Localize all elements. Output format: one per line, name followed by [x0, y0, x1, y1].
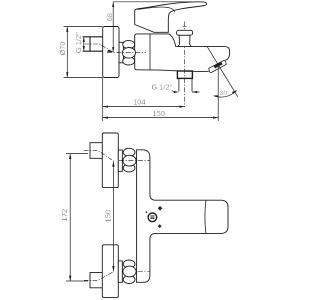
- plan view: top nut centerline: [119, 160, 150, 162]
- plan view: bottom nipple centerline: [84, 272, 114, 281]
- plan view: bottom nut centerline: [119, 271, 150, 273]
- faucet body block: [135, 34, 209, 72]
- dimension 172 extension lines: [66, 154, 88, 281]
- svg-text:150: 150: [104, 210, 113, 223]
- plan view: top inlet nipple: [90, 143, 102, 159]
- aerator dark insert: [214, 62, 223, 69]
- plan view: bottom eccentric ellipses: [123, 260, 135, 268]
- inlet centerline with arrow: [85, 44, 113, 52]
- plan view: screw diamond 1: [158, 206, 163, 211]
- body joint line: [149, 34, 151, 70]
- inlet nipple (side view): [83, 37, 103, 51]
- plan view: tiny dot: [146, 211, 148, 213]
- svg-text:172: 172: [60, 209, 69, 222]
- plan view: top eccentric ellipses: [123, 148, 135, 156]
- 30 degree slant line: [207, 47, 238, 97]
- plan view: bottom eccentric flange: [118, 261, 122, 282]
- plan view: top nipple centerline: [84, 151, 114, 161]
- G 1/2 outlet right arrow: [192, 91, 200, 93]
- plan view: top wall plate: [102, 133, 118, 188]
- dia 70 extension lines: [64, 27, 103, 78]
- plan view: body slab and spout bar: [137, 150, 228, 282]
- spout deck line: [176, 46, 226, 48]
- spout right end: [225, 47, 229, 61]
- svg-text:Ø70: Ø70: [58, 42, 67, 56]
- lever blade side line: [138, 7, 175, 12]
- dimension 172: [69, 154, 71, 281]
- G 1/2 outlet leader left arrow: [172, 91, 176, 93]
- G 1/2 inlet dimension: [83, 37, 85, 51]
- dimension 104: [103, 106, 185, 108]
- plan view: bottom inlet nipple: [90, 273, 102, 288]
- plan view: outlet circle: [148, 213, 157, 222]
- wall plate (side view): [103, 27, 119, 78]
- svg-text:150: 150: [153, 109, 165, 118]
- svg-text:104: 104: [133, 98, 145, 107]
- eccentric nut ellipses (side view): [123, 40, 135, 48]
- plan view: spout cap joint: [205, 200, 206, 233]
- knob centerline cross tick: [183, 25, 187, 27]
- shower outlet flange: [177, 71, 192, 78]
- lever handle: [135, 2, 207, 33]
- diverter knob centerline: [184, 22, 186, 108]
- dimension 150 plan: [112, 161, 114, 271]
- extension line right 150 (below aerator): [217, 66, 219, 121]
- plan view: top eccentric flange: [118, 150, 122, 171]
- svg-text:30°: 30°: [220, 89, 230, 97]
- dimension 150 top view: [103, 117, 219, 119]
- 30 degree arc: [214, 91, 236, 97]
- body cove to spout deck: [169, 34, 176, 47]
- aerator outline: [209, 60, 227, 72]
- eccentric nut flange (side view): [119, 42, 123, 63]
- diverter knob: [177, 30, 193, 46]
- body centerline (side view): [107, 51, 146, 53]
- extension line left for 104/150: [102, 78, 104, 121]
- shower outlet pipe: [179, 78, 192, 91]
- svg-text:G 1/2″: G 1/2″: [152, 82, 173, 91]
- plan view: screw diamond 2: [158, 224, 162, 228]
- plan view: bottom wall plate: [102, 245, 118, 298]
- dimension 68 extension line: [113, 1, 202, 3]
- dimension 68 line: [112, 2, 114, 53]
- dia 70 dimension line: [66, 27, 68, 78]
- svg-text:G 1/2″: G 1/2″: [74, 32, 83, 53]
